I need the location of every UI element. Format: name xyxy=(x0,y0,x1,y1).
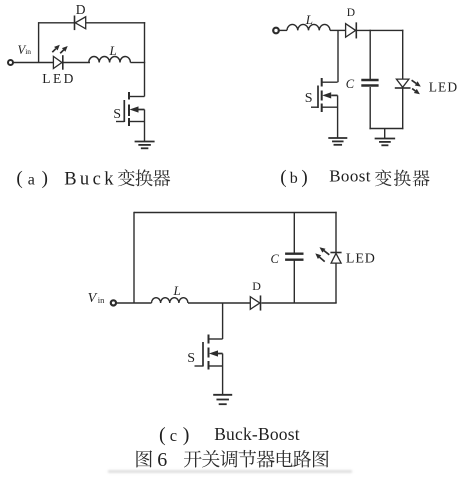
svg-text:in: in xyxy=(25,47,31,56)
svg-text:Buck-Boost: Buck-Boost xyxy=(214,424,300,444)
svg-text:C: C xyxy=(346,77,355,91)
svg-text:): ) xyxy=(42,168,48,189)
svg-text:S: S xyxy=(187,351,195,366)
svg-text:c: c xyxy=(170,426,177,445)
svg-text:L: L xyxy=(173,283,181,298)
svg-text:D: D xyxy=(76,2,86,17)
svg-text:S: S xyxy=(113,107,121,122)
svg-text:(: ( xyxy=(16,168,22,189)
svg-text:D: D xyxy=(347,7,355,19)
svg-text:Boost: Boost xyxy=(329,167,371,186)
svg-text:in: in xyxy=(98,295,105,305)
svg-text:): ) xyxy=(301,167,307,188)
svg-text:D: D xyxy=(252,279,261,293)
svg-text:L: L xyxy=(109,43,117,58)
svg-text:): ) xyxy=(183,424,190,446)
svg-text:L: L xyxy=(305,12,313,27)
svg-text:C: C xyxy=(271,252,280,266)
svg-text:LED: LED xyxy=(429,80,459,95)
svg-text:6: 6 xyxy=(157,449,167,471)
svg-text:b: b xyxy=(290,170,298,187)
svg-text:V: V xyxy=(88,291,98,306)
svg-text:S: S xyxy=(305,91,313,106)
svg-text:(: ( xyxy=(280,167,286,188)
svg-text:Buck: Buck xyxy=(64,170,117,190)
svg-text:LED: LED xyxy=(42,71,75,86)
svg-text:a: a xyxy=(28,172,35,189)
svg-text:LED: LED xyxy=(346,252,376,267)
svg-text:(: ( xyxy=(159,424,166,446)
